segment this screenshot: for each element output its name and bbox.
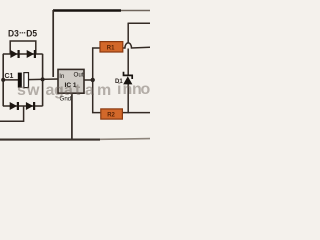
wire top bypass loop — [10, 41, 36, 54]
wire bottom rail gray segment — [100, 138, 150, 141]
zener diode D1 — [123, 72, 132, 85]
node dot left rail / C1 — [1, 78, 5, 82]
wire AC input drop from bottom row to left edge — [0, 106, 24, 121]
wire vertical zener branch upper part — [127, 23, 129, 43]
wire C1 row / IC In row — [3, 78, 58, 81]
capacitor C1 — [18, 73, 29, 88]
svg-text:t: t — [75, 82, 81, 99]
diode D6 (bottom-right) — [26, 102, 35, 110]
svg-text:C1: C1 — [5, 73, 14, 80]
wire R1 left lead and drop to Out node — [93, 48, 101, 80]
wire vertical zener branch mid part — [127, 49, 129, 76]
svg-text:R2: R2 — [107, 113, 115, 119]
wire right rail — [42, 54, 44, 106]
svg-text:In: In — [59, 73, 65, 80]
svg-text:a: a — [85, 82, 94, 99]
wire vertical zener branch lower part — [127, 84, 129, 113]
svg-text:i: i — [117, 81, 121, 98]
wire bottom diode row — [3, 105, 43, 107]
wire upper-right horizontal to edge — [128, 22, 150, 24]
diode D3 (top-left) — [10, 50, 19, 58]
wire R2 right lead to edge — [122, 112, 150, 114]
svg-text:n: n — [123, 81, 133, 98]
wire IC Gnd down — [71, 93, 73, 140]
resistor R2 — [101, 109, 123, 119]
wire left edge down to IC In — [52, 10, 54, 77]
svg-text:a: a — [64, 82, 73, 99]
svg-text:D3: D3 — [8, 28, 19, 38]
svg-text:w: w — [26, 82, 40, 99]
node dot Out / R1 / R2 — [91, 78, 95, 82]
wire R1 right lead with hop over vertical — [123, 43, 150, 48]
resistor R1 — [100, 42, 123, 52]
op-amp-style regulator box IC 1 — [58, 69, 84, 93]
diode D4 (top-right) — [27, 50, 36, 58]
wire top rail thick segment — [53, 9, 121, 11]
node dot right rail / In row — [41, 77, 45, 81]
wire IC Out to node — [84, 79, 93, 81]
wire top rail thin right segment — [121, 10, 150, 12]
svg-text:D5: D5 — [26, 28, 37, 38]
svg-text:R1: R1 — [107, 46, 115, 52]
wire top diode row — [3, 53, 43, 55]
svg-text:m: m — [97, 82, 111, 99]
svg-text:Out: Out — [74, 72, 84, 79]
svg-text:g: g — [54, 82, 64, 99]
watermark swagatam inno — [17, 81, 151, 99]
svg-text:s: s — [17, 82, 26, 99]
svg-text:o: o — [141, 81, 151, 98]
diode D5 (bottom-left) — [10, 102, 19, 110]
wire node down to R2 row — [93, 79, 101, 113]
wire left rail — [2, 54, 4, 106]
wire bottom rail dark segment — [0, 139, 100, 141]
